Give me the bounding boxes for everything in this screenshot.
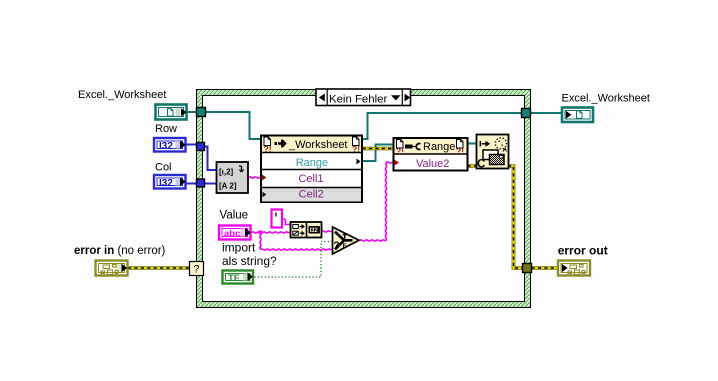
wire: conversion node to select t input (322, 231, 333, 232)
svg-text:?!: ?! (396, 146, 404, 156)
wire: error from Range node to close ref and down to tunnel (468, 164, 478, 168)
close reference node (477, 135, 509, 171)
svg-text:TF: TF (228, 273, 240, 284)
wire: error in to selector tunnel (128, 266, 190, 270)
svg-text:I32: I32 (310, 228, 319, 234)
control terminal: Value (string abc) (219, 226, 251, 240)
junction dot on Value wire (258, 230, 262, 234)
case structure border (hatched) (197, 90, 531, 308)
svg-text:I32: I32 (159, 178, 173, 189)
svg-text:Excel._Worksheet: Excel._Worksheet (562, 93, 650, 105)
wire: select output up to Value2 (360, 240, 387, 241)
tunnel: case selector [?] (190, 262, 204, 276)
svg-text:Kein Fehler: Kein Fehler (329, 93, 387, 105)
svg-text:I32: I32 (159, 141, 173, 152)
svg-text:error in (no error): error in (no error) (74, 245, 166, 257)
svg-text:?: ? (193, 264, 199, 276)
string-to-number conversion node (291, 222, 322, 238)
svg-text:Excel._Worksheet: Excel._Worksheet (78, 89, 166, 101)
indicator terminal: Excel._Worksheet refnum (right) (562, 108, 593, 123)
tunnel: error out (olive) (523, 264, 532, 273)
invoke node _Worksheet (Range, Cell1, Cell2) (261, 136, 362, 203)
tunnel: Col (blue) (197, 179, 205, 187)
row/col to cell reference subVI (217, 162, 249, 193)
svg-text:?!: ?! (264, 144, 272, 154)
control terminal: Row I32 (154, 138, 186, 152)
select function (triangle) (333, 227, 360, 254)
wire: import als string? boolean (dotted green) (255, 242, 333, 278)
string constant (space) (272, 210, 283, 228)
indicator terminal: error out cluster (558, 261, 590, 276)
wire: string constant to conversion node (283, 219, 291, 225)
svg-text:Value: Value (220, 210, 249, 222)
wire: Value branch down to select f input (260, 233, 261, 250)
svg-text:als string?: als string? (222, 254, 277, 268)
wire: Col (blue I32) (186, 183, 217, 185)
tunnel: Row (blue) (197, 143, 205, 151)
svg-text:Value2: Value2 (416, 158, 449, 170)
svg-text:?!: ?! (352, 144, 360, 154)
tunnel: refnum in (teal) (197, 108, 206, 117)
wire: error between invoke node and property node (363, 147, 395, 151)
svg-text:Cell1: Cell1 (298, 173, 323, 185)
svg-text:C: C (477, 159, 485, 171)
svg-text:import: import (222, 241, 256, 255)
svg-text:Row: Row (155, 123, 177, 135)
control terminal: import als string? (TF) (223, 271, 254, 285)
property node Range (Value2) (394, 138, 468, 171)
svg-text:Range: Range (423, 141, 455, 153)
svg-text:[A 2]: [A 2] (219, 182, 237, 191)
svg-text:_Worksheet: _Worksheet (288, 139, 348, 151)
svg-text:Range: Range (296, 157, 328, 169)
svg-text:Col: Col (155, 161, 172, 173)
wire: Row (blue I32) (186, 145, 217, 171)
wire: Value string to conversion node (249, 162, 395, 250)
control terminal: Col I32 (154, 175, 186, 189)
svg-text:Cell2: Cell2 (299, 189, 324, 201)
svg-text:F: F (343, 243, 347, 250)
tunnel: refnum out (teal) (522, 109, 531, 118)
control terminal: Excel._Worksheet refnum (left) (156, 105, 187, 120)
svg-text:error out: error out (558, 244, 608, 258)
svg-text:?: ? (333, 241, 339, 252)
case selector "Kein Fehler" (316, 89, 411, 106)
wire: Excel._Worksheet refnum (teal) left (187, 112, 563, 161)
wire: error out of structure to indicator (532, 266, 559, 270)
control terminal: error in cluster (96, 261, 128, 276)
svg-text:abc: abc (224, 229, 240, 240)
svg-text:?!: ?! (456, 146, 464, 156)
wire: cell calc node to Cell1 input (249, 177, 262, 178)
svg-text:[ı,2]: [ı,2] (219, 168, 234, 177)
